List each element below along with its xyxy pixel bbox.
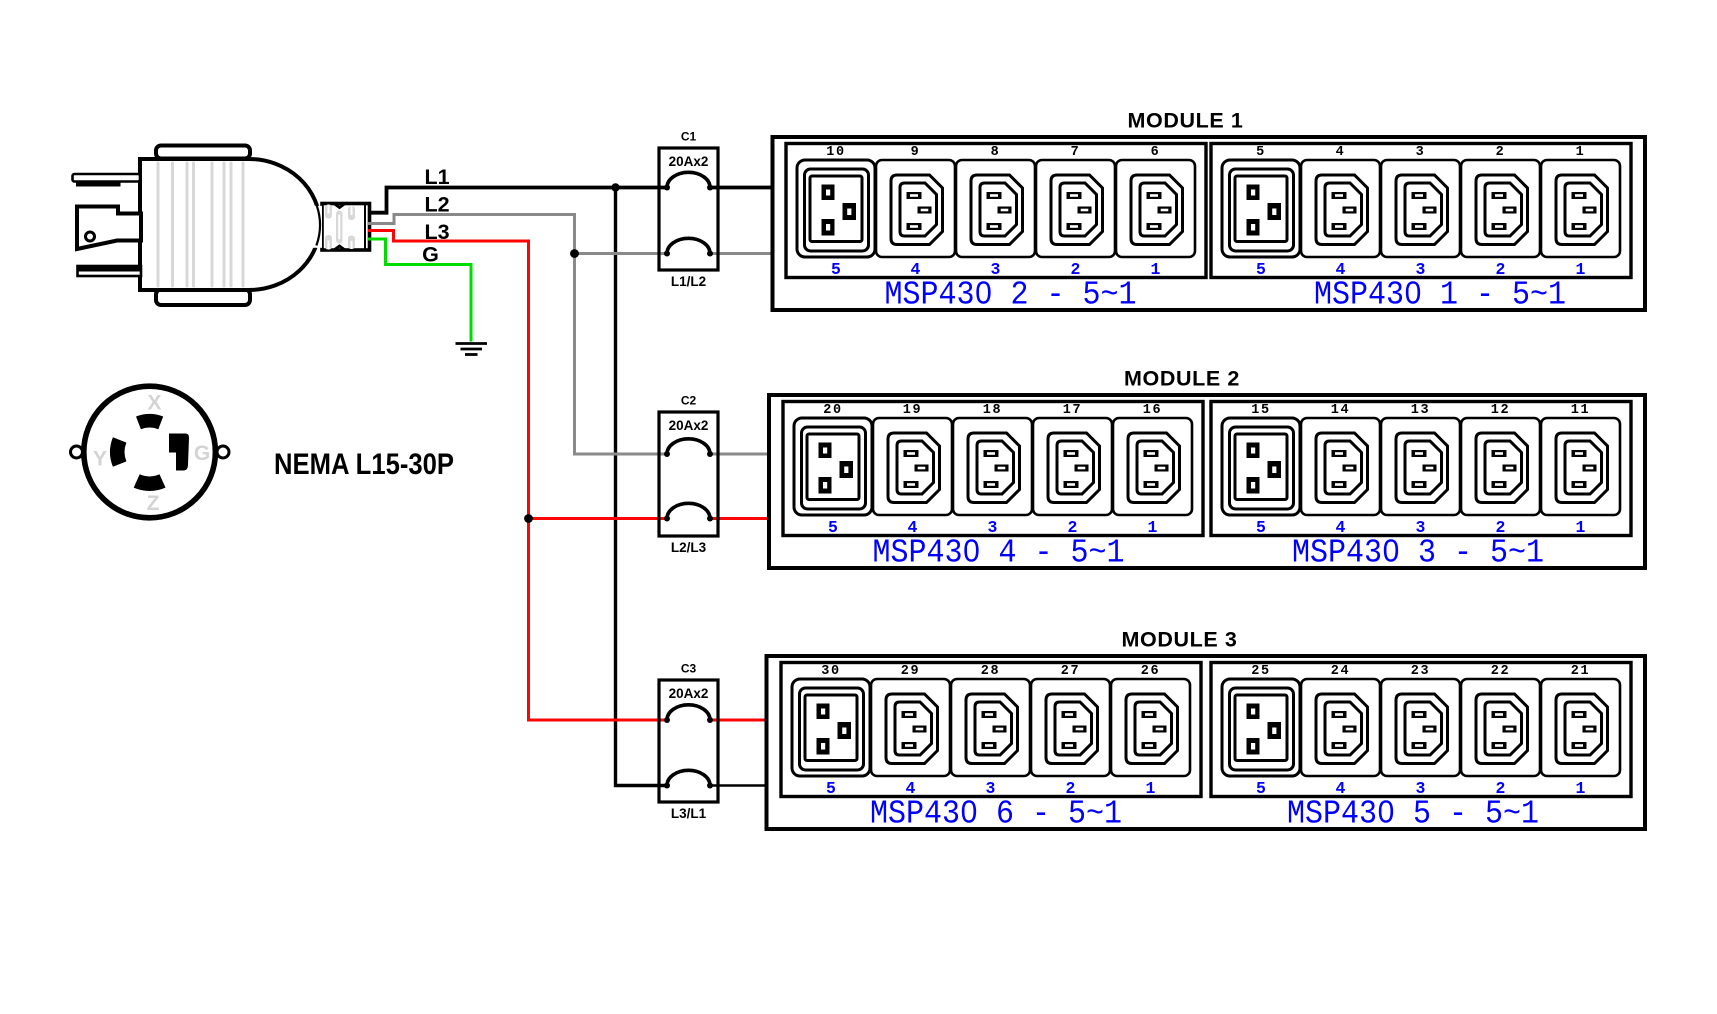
svg-text:1: 1 — [1576, 779, 1586, 798]
svg-text:18: 18 — [983, 403, 1002, 418]
outlet 15 (C19) — [1222, 418, 1300, 515]
svg-text:20Ax2: 20Ax2 — [669, 418, 709, 433]
outlet 18 (C13) — [953, 418, 1032, 515]
wire C1 to module1 L1 — [710, 186, 773, 190]
outlet 27 (C13) — [1031, 679, 1110, 776]
receptacle contact G (right) — [169, 434, 189, 471]
outlet 3 (C13) — [1381, 160, 1460, 257]
outlet 1 (C13) — [1541, 160, 1620, 257]
svg-text:5: 5 — [1256, 260, 1266, 279]
receptacle contact Y (left) — [110, 437, 126, 467]
junction L1 node — [611, 183, 619, 191]
svg-text:MSP430 2 - 5~1: MSP430 2 - 5~1 — [885, 277, 1137, 314]
svg-text:21: 21 — [1571, 664, 1590, 679]
wire G (green) plug to ground — [368, 239, 471, 342]
svg-text:MSP430 4 - 5~1: MSP430 4 - 5~1 — [873, 535, 1125, 572]
outlet 29 (C13) — [871, 679, 950, 776]
svg-text:24: 24 — [1331, 664, 1350, 679]
svg-text:15: 15 — [1251, 403, 1270, 418]
outlet 10 (C19) — [797, 160, 875, 257]
ground symbol — [456, 344, 488, 355]
svg-text:L3/L1: L3/L1 — [671, 806, 707, 821]
plug body ribs — [158, 163, 243, 286]
outlet 2 (C13) — [1461, 160, 1540, 257]
svg-text:X: X — [147, 392, 161, 415]
module 3 outer box — [767, 656, 1646, 829]
receptacle mounting ear left — [71, 446, 83, 458]
breaker C1 (L1/L2) — [659, 130, 718, 290]
outlet 4 (C13) — [1301, 160, 1380, 257]
svg-text:G: G — [422, 243, 439, 267]
junction L2 node — [570, 249, 579, 258]
receptacle face circle — [84, 386, 216, 518]
svg-text:13: 13 — [1411, 403, 1430, 418]
svg-text:4: 4 — [1336, 145, 1346, 160]
svg-text:22: 22 — [1491, 664, 1510, 679]
outlet 20 (C19) — [794, 418, 872, 515]
outlet 25 (C19) — [1222, 679, 1300, 776]
svg-text:1: 1 — [1576, 145, 1586, 160]
svg-text:NEMA L15-30P: NEMA L15-30P — [274, 448, 454, 481]
svg-text:14: 14 — [1331, 403, 1350, 418]
breaker C2 (L2/L3) — [659, 394, 718, 556]
outlet 6 (C13) — [1116, 160, 1195, 257]
outlet 14 (C13) — [1301, 418, 1380, 515]
wire C1 to module1 L2 — [710, 252, 773, 255]
svg-text:5: 5 — [828, 518, 838, 537]
svg-text:1: 1 — [1576, 260, 1586, 279]
svg-text:L3: L3 — [424, 220, 449, 244]
svg-text:L2/L3: L2/L3 — [671, 540, 707, 555]
svg-text:Y: Y — [93, 448, 107, 471]
svg-text:C2: C2 — [681, 394, 697, 408]
svg-text:MODULE 2: MODULE 2 — [1124, 367, 1240, 391]
svg-text:17: 17 — [1063, 403, 1082, 418]
wire C3 to module3 L1 — [710, 784, 767, 787]
receptacle contact Z (bottom) — [134, 474, 166, 491]
outlet 9 (C13) — [876, 160, 955, 257]
wire L3 branch to C2 — [529, 517, 668, 520]
svg-text:L1/L2: L1/L2 — [671, 274, 706, 289]
receptacle contact X (top) — [136, 414, 163, 429]
svg-text:MSP430 6 - 5~1: MSP430 6 - 5~1 — [870, 796, 1122, 833]
module 1 bank 2 box — [1211, 144, 1631, 278]
wire C3 to module3 L3 — [710, 719, 767, 722]
wire C2 to module2 L2 — [710, 453, 769, 456]
outlet 19 (C13) — [873, 418, 952, 515]
outlet 13 (C13) — [1381, 418, 1460, 515]
svg-text:19: 19 — [903, 403, 922, 418]
svg-text:Z: Z — [147, 492, 160, 515]
svg-text:9: 9 — [911, 145, 921, 160]
svg-text:1: 1 — [1146, 779, 1156, 798]
svg-text:28: 28 — [981, 664, 1000, 679]
wire L3 (red) plug to C3 — [368, 231, 667, 721]
svg-text:27: 27 — [1061, 664, 1080, 679]
outlet 17 (C13) — [1033, 418, 1112, 515]
svg-text:5: 5 — [1256, 518, 1266, 537]
svg-text:MODULE 3: MODULE 3 — [1122, 628, 1238, 652]
svg-text:MSP430 1 - 5~1: MSP430 1 - 5~1 — [1314, 277, 1566, 314]
module 2 bank 1 box — [783, 402, 1203, 536]
svg-text:29: 29 — [901, 664, 920, 679]
wire C2 to module2 L3 — [710, 517, 769, 520]
svg-text:20: 20 — [823, 403, 842, 418]
module 2 outer box — [769, 395, 1645, 568]
outlet 11 (C13) — [1541, 418, 1620, 515]
svg-text:30: 30 — [821, 664, 840, 679]
outlet 26 (C13) — [1111, 679, 1190, 776]
svg-text:L1: L1 — [424, 165, 449, 189]
svg-text:16: 16 — [1143, 403, 1162, 418]
svg-text:C1: C1 — [681, 130, 697, 144]
svg-text:20Ax2: 20Ax2 — [669, 686, 709, 701]
svg-text:L2: L2 — [424, 193, 449, 217]
plug blade X (top prong) — [73, 174, 141, 187]
svg-text:C3: C3 — [681, 662, 697, 676]
svg-text:11: 11 — [1571, 403, 1590, 418]
svg-text:7: 7 — [1071, 145, 1081, 160]
module 3 bank 1 box — [781, 663, 1201, 797]
svg-text:1: 1 — [1148, 518, 1158, 537]
svg-text:5: 5 — [1256, 779, 1266, 798]
outlet 7 (C13) — [1036, 160, 1115, 257]
outlet 30 (C19) — [792, 679, 870, 776]
svg-text:MSP430 5 - 5~1: MSP430 5 - 5~1 — [1287, 796, 1539, 833]
breaker C3 (L3/L1) — [659, 662, 718, 822]
svg-text:6: 6 — [1151, 145, 1161, 160]
svg-text:2: 2 — [1496, 145, 1506, 160]
svg-text:20Ax2: 20Ax2 — [669, 154, 709, 169]
outlet 28 (C13) — [951, 679, 1030, 776]
wire L2 branch to C1 — [575, 252, 668, 255]
svg-text:23: 23 — [1411, 664, 1430, 679]
outlet 8 (C13) — [956, 160, 1035, 257]
svg-text:G: G — [194, 442, 210, 465]
svg-text:10: 10 — [826, 145, 845, 160]
wire L2 (gray) plug to C2 — [368, 215, 667, 455]
svg-text:12: 12 — [1491, 403, 1510, 418]
plug blade Y (middle prong with hole) — [77, 207, 141, 250]
module 1 bank 1 box — [786, 144, 1206, 278]
plug blade Z (bottom prong) — [78, 266, 142, 276]
svg-text:26: 26 — [1141, 664, 1160, 679]
outlet 22 (C13) — [1461, 679, 1540, 776]
svg-text:3: 3 — [1416, 145, 1426, 160]
receptacle face NEMA L15-30P symbol — [71, 386, 230, 518]
svg-text:MSP430 3 - 5~1: MSP430 3 - 5~1 — [1292, 535, 1544, 572]
outlet 21 (C13) — [1541, 679, 1620, 776]
outlet 5 (C19) — [1222, 160, 1300, 257]
svg-text:5: 5 — [826, 779, 836, 798]
outlet 16 (C13) — [1113, 418, 1192, 515]
junction L3 node — [524, 514, 533, 523]
svg-text:8: 8 — [991, 145, 1001, 160]
outlet 24 (C13) — [1301, 679, 1380, 776]
module 3 bank 2 box — [1211, 663, 1631, 797]
svg-text:5: 5 — [831, 260, 841, 279]
svg-text:1: 1 — [1576, 518, 1586, 537]
receptacle mounting ear right — [217, 446, 229, 458]
svg-text:1: 1 — [1151, 260, 1161, 279]
module 1 outer box — [773, 137, 1646, 310]
outlet 23 (C13) — [1381, 679, 1460, 776]
svg-text:5: 5 — [1256, 145, 1266, 160]
wire L1 (black) plug to breaker C1 — [368, 188, 667, 213]
svg-text:25: 25 — [1251, 664, 1270, 679]
wire L1 vertical feeder to C3 — [616, 188, 668, 786]
svg-text:MODULE 1: MODULE 1 — [1128, 109, 1244, 133]
outlet 12 (C13) — [1461, 418, 1540, 515]
module 2 bank 2 box — [1211, 402, 1631, 536]
plug P1 (NEMA L15-30P cord plug) — [140, 146, 370, 306]
plug cord-grip ferrule details — [311, 204, 365, 251]
